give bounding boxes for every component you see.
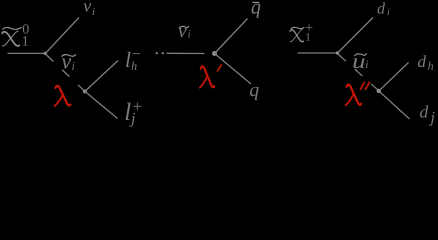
- neutrino nu_i label: [83, 0, 95, 18]
- wire: squark dashed propagator: [339, 55, 379, 91]
- wire: lepton l+_j line: [85, 91, 118, 118]
- neutralino chi~^0_1 label: [2, 22, 29, 49]
- svg-text:d: d: [418, 52, 427, 71]
- svg-text:d: d: [420, 102, 429, 122]
- quark d_h label: [418, 52, 434, 73]
- wire: d_h quark line: [379, 63, 409, 92]
- svg-text:i: i: [365, 59, 368, 71]
- wire: sneutrino incoming line: [167, 52, 205, 54]
- quark d_j label: [420, 102, 436, 127]
- svg-text:i: i: [188, 29, 191, 41]
- node: vertex 2: [83, 89, 87, 93]
- svg-text:i: i: [92, 6, 95, 18]
- svg-text:j: j: [429, 110, 436, 127]
- wire: quark line: [215, 54, 252, 85]
- wire: d_j quark line: [379, 91, 410, 119]
- coupling lambda' (red): [200, 65, 221, 87]
- node: vertex 1: [44, 52, 47, 55]
- wire: neutralino propagator: [8, 52, 45, 54]
- svg-text:i: i: [72, 59, 75, 73]
- wire: chargino propagator: [298, 52, 338, 54]
- svg-text:1: 1: [305, 32, 311, 44]
- svg-text:l: l: [125, 47, 131, 72]
- coupling lambda (red): [55, 86, 71, 106]
- svg-text:1: 1: [22, 34, 29, 49]
- lepton l-_h label: [125, 46, 141, 73]
- svg-text:ν: ν: [61, 49, 71, 74]
- node: vertex R2: [377, 89, 381, 93]
- squark u~_i label: [352, 49, 368, 73]
- wire: neutrino line: [45, 18, 79, 54]
- coupling lambda'' (red): [346, 82, 370, 105]
- svg-text:d: d: [377, 1, 386, 18]
- wire: antiquark line: [215, 19, 248, 54]
- quark d_i label: [377, 1, 390, 19]
- svg-text:q: q: [249, 80, 259, 101]
- wire: sneutrino dashed propagator: [46, 55, 84, 92]
- sneutrino nu~_i label: [61, 49, 76, 74]
- wire: lepton l-_h line: [85, 61, 118, 92]
- svg-text:ν: ν: [83, 0, 91, 15]
- svg-text:i: i: [387, 7, 390, 18]
- svg-text:u: u: [352, 49, 366, 73]
- node: vertex M: [212, 51, 217, 56]
- lepton l+_j label: [124, 97, 142, 127]
- svg-text:h: h: [131, 59, 137, 73]
- sneutrino nu~_i label (middle): [178, 20, 191, 42]
- continuation dots: [156, 52, 158, 54]
- node: vertex R1: [336, 51, 339, 54]
- svg-text:q: q: [251, 0, 261, 18]
- wire: d_i quark line: [338, 18, 374, 54]
- svg-text:j: j: [129, 110, 136, 127]
- svg-text:ν: ν: [178, 20, 187, 42]
- svg-text:h: h: [428, 59, 434, 73]
- chargino chi~^+_1 label: [290, 21, 313, 44]
- antiquark qbar label: [251, 0, 261, 18]
